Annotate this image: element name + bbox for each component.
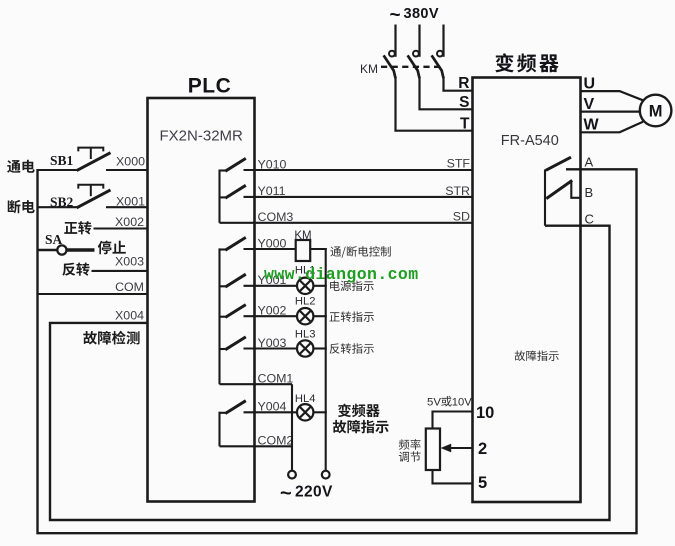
label 频率调节 line 2 (399, 452, 409, 462)
label 电源指示 (330, 281, 340, 291)
svg-text:HL4: HL4 (295, 393, 316, 405)
contactor KM main contact pole 3 (437, 51, 443, 57)
label 变频器故障指示 line 2 (333, 420, 346, 433)
svg-text:KM: KM (360, 62, 378, 76)
svg-text:V: V (584, 96, 595, 113)
wire COM3 to inverter SD (220, 222, 473, 224)
wire COM2 to 220V terminal drop (220, 445, 293, 447)
svg-text:COM2: COM2 (258, 434, 294, 448)
svg-text:S: S (459, 94, 469, 111)
label 断电 (power off) (8, 200, 21, 213)
svg-text:X002: X002 (115, 215, 144, 229)
label 反转 (reverse) (62, 263, 75, 276)
label 频率调节 line 1 (399, 439, 410, 450)
svg-text:C: C (585, 211, 594, 226)
wire supply phase L1 (394, 25, 396, 57)
relay contact Y011 (220, 196, 227, 198)
svg-text:www.diangon.com: www.diangon.com (264, 265, 419, 284)
wire supply phase L2 (418, 25, 420, 57)
wire SB2 to PLC input X001 (106, 206, 148, 208)
svg-text:STF: STF (447, 156, 471, 170)
wire lamp HL1 to return bus (313, 285, 327, 287)
contactor KM main contact pole 1 (389, 51, 395, 57)
svg-text:M: M (649, 103, 663, 121)
svg-text:COM1: COM1 (258, 372, 294, 386)
svg-text:X000: X000 (116, 155, 145, 169)
wire output common bar for Y004 (218, 412, 220, 447)
terminal circle 220V left (288, 471, 296, 479)
svg-text:5: 5 (478, 474, 487, 492)
potentiometer RP (频率调节) (426, 429, 440, 471)
svg-text:X004: X004 (115, 309, 144, 323)
contactor KM main contact pole 2 (413, 51, 419, 57)
wire potentiometer bottom to inverter terminal 5 (433, 470, 473, 483)
svg-text:HL2: HL2 (295, 296, 316, 308)
wire pole3 to inverter terminal R (444, 77, 473, 91)
svg-text:SB1: SB1 (50, 153, 74, 168)
wire output common bar for Y000-Y003 (218, 248, 220, 384)
indicator lamp HL1 (297, 278, 313, 294)
pushbutton SB1 (NO) (77, 153, 111, 171)
wire fault contact common bar (A-C) (544, 169, 546, 225)
label 正转指示 (329, 312, 339, 321)
svg-text:COM: COM (115, 280, 144, 294)
selector switch SA (38, 249, 58, 251)
wire pole1 to inverter terminal T (396, 77, 473, 131)
wire output Y003 to lamp HL3 (244, 347, 298, 349)
svg-text:A: A (585, 155, 594, 170)
indicator lamp HL2 (297, 308, 313, 324)
wire lamp return bus down to right 220V terminal (310, 249, 326, 471)
relay contact Y010 (220, 169, 227, 171)
svg-text:U: U (584, 75, 596, 92)
svg-text:Y010: Y010 (258, 157, 287, 171)
svg-text:~: ~ (390, 5, 401, 26)
svg-text:KM: KM (294, 230, 311, 242)
wire terminal U to motor (581, 91, 644, 100)
wire terminal W to motor (581, 122, 644, 133)
wire inverter fault contact A to input common rail loop (38, 169, 637, 533)
inverter fault relay contact A (NO) (546, 157, 571, 170)
label 通/断电控制 (330, 247, 341, 257)
label inverter 故障指示 (fault indication) (515, 351, 525, 361)
PLC box (148, 98, 255, 502)
wire output Y010 to inverter STF (244, 169, 473, 171)
wire inverter terminal 10 to potentiometer top (433, 412, 473, 429)
relay contact Y002 (220, 316, 227, 318)
wire to PLC input X002 (94, 227, 148, 229)
label 变频器故障指示 line 1 (338, 404, 351, 418)
wire rail to pushbutton SB1 (38, 169, 78, 171)
wire terminal V to motor (581, 110, 641, 112)
svg-text:5V: 5V (427, 397, 441, 409)
wire output Y000 to contactor coil KM (244, 248, 296, 250)
svg-text:2: 2 (478, 440, 487, 458)
wire COM1/COM2 drop to left 220V terminal (291, 384, 293, 470)
relay contact Y004 (220, 412, 227, 414)
label 故障检测 (fault detection) (83, 331, 97, 345)
svg-text:R: R (458, 75, 469, 92)
motor M (640, 95, 672, 127)
wire lamp HL2 to return bus (313, 315, 327, 317)
wire SB1 to PLC input X000 (106, 169, 148, 171)
label 通电 (power on) (7, 160, 20, 173)
svg-text:220V: 220V (295, 483, 333, 500)
wire output Y011 to inverter STR (244, 196, 473, 198)
svg-text:Y000: Y000 (258, 236, 287, 250)
relay contact Y003 (220, 348, 227, 350)
relay contact Y000 (220, 248, 227, 250)
svg-text:10V: 10V (452, 397, 472, 409)
relay contact Y001 (220, 285, 227, 287)
wire rail to PLC input COM (38, 293, 148, 295)
wire rail to pushbutton SB2 (38, 206, 78, 208)
wire output Y004 to lamp HL4 (244, 411, 298, 413)
indicator lamp HL3 (297, 340, 313, 356)
label inverter title 变频器 (495, 53, 514, 72)
wire inverter fault contact C to PLC input X004 (fault detect loop) (50, 226, 610, 520)
svg-text:B: B (585, 185, 594, 200)
inverter U1 box FR-A540 (473, 78, 581, 503)
svg-text:STR: STR (445, 184, 470, 198)
label 停止 (stop) (98, 241, 112, 255)
svg-text:10: 10 (476, 404, 494, 422)
svg-text:Y011: Y011 (258, 184, 286, 198)
label 正转 (forward) (64, 222, 77, 234)
wire lamp HL4 to return bus (313, 411, 327, 413)
wire output common bar for Y010/Y011 (218, 170, 220, 223)
wire COM1 to 220V terminal drop (220, 383, 293, 385)
svg-text:COM3: COM3 (258, 210, 294, 224)
contactor KM mechanical linkage (dashed) (381, 66, 441, 68)
svg-text:HL3: HL3 (295, 328, 316, 340)
pushbutton SB2 (NO) (77, 190, 111, 208)
svg-text:X003: X003 (115, 254, 144, 268)
label 反转指示 (330, 343, 340, 353)
svg-text:Y002: Y002 (258, 304, 287, 318)
potentiometer wiper arrow to inverter terminal 2 (449, 447, 473, 449)
wire to PLC input X003 (92, 270, 148, 272)
contactor coil KM (296, 240, 311, 261)
svg-text:Y004: Y004 (258, 400, 287, 414)
svg-text:Y003: Y003 (258, 336, 287, 350)
svg-text:PLC: PLC (188, 75, 232, 98)
svg-text:T: T (460, 115, 470, 132)
svg-text:SB2: SB2 (50, 194, 74, 209)
svg-text:W: W (584, 117, 600, 134)
wire supply phase L3 (442, 25, 444, 57)
wire pole2 to inverter terminal S (420, 77, 473, 109)
svg-text:X001: X001 (116, 195, 145, 209)
wire lamp HL3 to return bus (313, 347, 327, 349)
inverter fault relay contact B (NC) (546, 180, 572, 198)
svg-text:380V: 380V (404, 6, 439, 22)
indicator lamp HL4 (297, 404, 313, 420)
svg-text:FX2N-32MR: FX2N-32MR (160, 128, 244, 145)
svg-text:FR-A540: FR-A540 (501, 133, 559, 149)
wire output Y002 to lamp HL2 (244, 315, 298, 317)
wire fault contact B stub to terminal B (571, 197, 580, 199)
wire KM coil to lamp return bus (310, 248, 327, 250)
wire output Y001 to lamp HL1 (244, 285, 298, 287)
terminal circle 220V right (322, 471, 330, 479)
svg-text:~: ~ (280, 483, 292, 505)
svg-text:SD: SD (453, 210, 470, 224)
